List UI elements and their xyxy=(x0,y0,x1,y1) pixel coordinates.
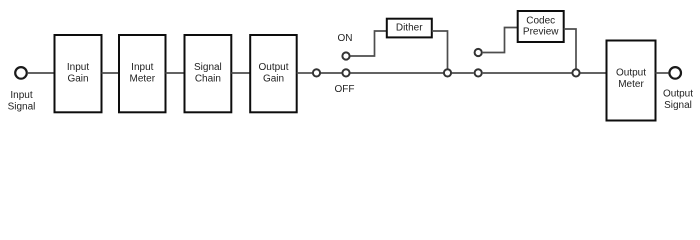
node: Output Signal terminal xyxy=(669,67,681,79)
node: dither OFF contact xyxy=(342,69,349,76)
svg-text:ON: ON xyxy=(338,33,353,44)
label: Input Signal xyxy=(8,90,36,112)
wire: codec junction to Output Meter xyxy=(581,72,607,74)
block: Dither xyxy=(387,19,432,38)
block: Codec Preview xyxy=(518,11,564,42)
node: dither ON contact xyxy=(342,52,349,59)
wire: OFF contact to dither junction xyxy=(351,72,444,74)
junction: dither re-join xyxy=(444,69,451,76)
wire: Input Gain to Input Meter xyxy=(102,72,120,74)
wire: ON contact up to Dither input xyxy=(351,31,387,56)
node: codec preview ON contact xyxy=(475,49,482,56)
wire: Input Meter to Signal Chain xyxy=(166,72,185,74)
svg-text:Codec: Codec xyxy=(526,15,555,26)
svg-text:Meter: Meter xyxy=(130,74,156,85)
svg-text:OFF: OFF xyxy=(335,84,355,95)
node: dither switch pole xyxy=(313,69,320,76)
svg-text:Dither: Dither xyxy=(396,22,423,33)
svg-text:Chain: Chain xyxy=(195,74,221,85)
svg-text:Output: Output xyxy=(258,62,288,73)
wire: dither junction to codec bypass contact xyxy=(452,72,474,74)
svg-text:Gain: Gain xyxy=(67,74,88,85)
label: Output Signal xyxy=(663,89,693,111)
svg-text:Signal: Signal xyxy=(194,62,222,73)
svg-text:Input: Input xyxy=(131,62,153,73)
wire: Output Meter to output terminal xyxy=(656,72,669,74)
svg-text:Signal: Signal xyxy=(664,100,692,111)
junction: codec re-join xyxy=(572,69,579,76)
svg-text:Signal: Signal xyxy=(8,102,36,113)
svg-text:Meter: Meter xyxy=(618,79,644,90)
svg-text:Gain: Gain xyxy=(263,74,284,85)
block: Signal Chain xyxy=(185,35,232,112)
svg-text:Input: Input xyxy=(67,62,89,73)
block: Output Meter xyxy=(607,41,656,121)
wire: pole to OFF contact xyxy=(321,72,342,74)
wire: Codec Preview output down to junction xyxy=(564,29,576,69)
wire: Output Gain to dither switch pole xyxy=(297,72,312,74)
wire: codec bypass contact to codec junction xyxy=(483,72,572,74)
svg-text:Input: Input xyxy=(10,90,32,101)
wire: input terminal to Input Gain xyxy=(27,72,54,74)
block: Input Gain xyxy=(55,35,102,112)
block: Output Gain xyxy=(250,35,297,112)
wire: codec ON contact up to Codec Preview input xyxy=(483,28,518,53)
node: Input Signal terminal xyxy=(15,67,27,79)
svg-text:Output: Output xyxy=(663,89,693,100)
wire: Signal Chain to Output Gain xyxy=(231,72,250,74)
node: codec preview bypass contact xyxy=(475,69,482,76)
svg-text:Preview: Preview xyxy=(523,27,559,38)
wire: Dither output down to junction xyxy=(432,31,448,69)
svg-text:Output: Output xyxy=(616,67,646,78)
block: Input Meter xyxy=(119,35,166,112)
